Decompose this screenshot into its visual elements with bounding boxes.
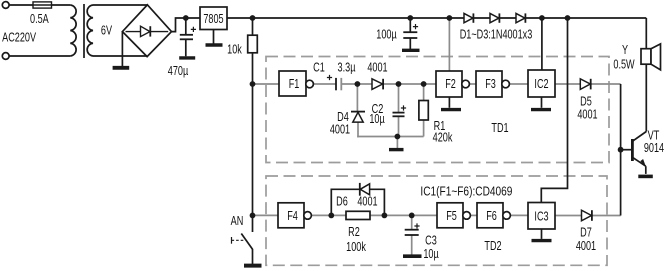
svg-text:F5: F5 bbox=[446, 210, 457, 224]
svg-text:F2: F2 bbox=[445, 78, 456, 92]
svg-text:0.5A: 0.5A bbox=[30, 13, 49, 27]
svg-text:IC2: IC2 bbox=[534, 78, 548, 92]
svg-text:D6: D6 bbox=[336, 195, 348, 209]
svg-text:10k: 10k bbox=[227, 43, 242, 57]
svg-text:TD1: TD1 bbox=[491, 122, 508, 136]
svg-text:F3: F3 bbox=[485, 78, 496, 92]
svg-text:TD2: TD2 bbox=[484, 240, 501, 254]
svg-text:D1~D3:1N4001x3: D1~D3:1N4001x3 bbox=[460, 28, 533, 42]
svg-text:AN: AN bbox=[231, 215, 244, 229]
svg-text:C3: C3 bbox=[425, 234, 437, 248]
svg-text:9014: 9014 bbox=[644, 142, 664, 156]
svg-text:R2: R2 bbox=[348, 226, 360, 240]
svg-text:4001: 4001 bbox=[576, 240, 596, 254]
svg-text:F4: F4 bbox=[287, 210, 298, 224]
svg-text:3.3µ: 3.3µ bbox=[338, 61, 356, 75]
svg-text:4001: 4001 bbox=[357, 195, 377, 209]
svg-text:10µ: 10µ bbox=[369, 113, 385, 127]
svg-text:0.5W: 0.5W bbox=[613, 58, 635, 72]
svg-text:F6: F6 bbox=[486, 210, 497, 224]
svg-text:IC3: IC3 bbox=[534, 210, 548, 224]
svg-text:420k: 420k bbox=[433, 131, 453, 145]
svg-text:AC220V: AC220V bbox=[2, 31, 36, 45]
svg-text:6V: 6V bbox=[101, 24, 113, 38]
svg-text:100k: 100k bbox=[346, 240, 366, 254]
svg-text:4001: 4001 bbox=[330, 123, 350, 137]
svg-text:7805: 7805 bbox=[203, 12, 223, 26]
svg-text:IC1(F1~F6):CD4069: IC1(F1~F6):CD4069 bbox=[420, 185, 512, 199]
svg-text:Y: Y bbox=[622, 44, 628, 58]
svg-text:D7: D7 bbox=[580, 226, 592, 240]
svg-text:100µ: 100µ bbox=[376, 28, 397, 42]
svg-text:4001: 4001 bbox=[367, 61, 387, 75]
svg-text:D5: D5 bbox=[580, 95, 592, 109]
svg-text:470µ: 470µ bbox=[168, 64, 189, 78]
svg-text:F1: F1 bbox=[289, 78, 300, 92]
svg-text:4001: 4001 bbox=[577, 108, 597, 122]
svg-text:C1: C1 bbox=[313, 61, 325, 75]
svg-text:10µ: 10µ bbox=[423, 248, 439, 262]
